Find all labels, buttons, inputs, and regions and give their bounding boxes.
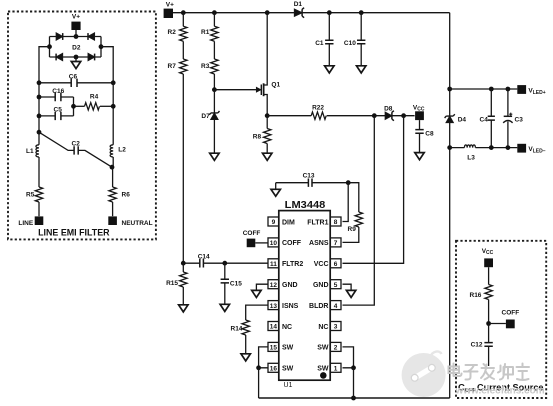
svg-text:7: 7 (334, 240, 338, 247)
svg-text:SW: SW (282, 366, 294, 373)
svg-text:8: 8 (334, 219, 338, 226)
wire VCC pin6 riser (343, 116, 404, 264)
bridge rectifier D2 (47, 33, 103, 60)
node junction (329.3,12.7) (327, 10, 332, 15)
ground arrow below C15 (220, 304, 229, 311)
pin 12 GND (268, 280, 298, 289)
node junction (353.5,367.8) (351, 365, 356, 370)
terminal VCC (main) (413, 104, 425, 120)
svg-text:2: 2 (334, 345, 338, 352)
pin 3 NC (318, 322, 341, 331)
C13 net: ground arrow (275, 183, 277, 190)
node junction (49.5,46.7) (47, 44, 52, 49)
capacitor C4 (480, 89, 495, 148)
node junction (224.8,263.2) (222, 261, 227, 266)
ground arrow below D7 (210, 153, 219, 160)
node junction (101,46.7) (99, 44, 104, 49)
wire FLTR2 row (183, 262, 268, 264)
terminal LINE (18, 216, 43, 226)
resistor R2 (168, 13, 188, 42)
svg-text:GND: GND (282, 282, 298, 289)
svg-text:www.elecfans.com: www.elecfans.com (455, 386, 545, 397)
watermark logo (402, 351, 446, 397)
wire VLED- row (450, 147, 518, 149)
svg-text:V+: V+ (166, 1, 174, 8)
node junction (449.7,147.6) (447, 145, 452, 150)
svg-text:C6: C6 (69, 74, 78, 81)
svg-text:VCC: VCC (314, 261, 329, 268)
capacitor C10 (344, 13, 366, 66)
wire GND pin12 (256, 284, 268, 290)
transistor Q1 (257, 13, 281, 116)
wire BLDR pin4 riser (343, 116, 375, 305)
svg-text:R15: R15 (166, 280, 178, 287)
svg-text:C12: C12 (471, 342, 483, 349)
svg-text:R8: R8 (253, 134, 262, 141)
svg-text:R5: R5 (26, 191, 35, 198)
resistor R16 (470, 267, 493, 323)
wire top rail (173, 12, 450, 14)
wire right rail down (449, 13, 451, 398)
capacitor C14 (198, 253, 210, 267)
ground arrow below R15 (179, 305, 188, 312)
svg-text:R16: R16 (470, 292, 482, 299)
wire node to COFF terminal (489, 323, 506, 325)
svg-text:C1: C1 (315, 40, 324, 47)
node junction (112,167.2) (110, 165, 115, 170)
pin 15 SW (268, 342, 294, 351)
svg-text:R2: R2 (168, 29, 177, 36)
pin 7 ASNS (309, 238, 341, 247)
svg-text:FLTR2: FLTR2 (282, 261, 303, 268)
resistor R4 (71, 94, 116, 110)
pin 4 BLDR (309, 301, 341, 310)
wire left rail down (38, 83, 40, 132)
svg-text:R1: R1 (201, 29, 210, 36)
node junction (73.5,106.3) (71, 104, 76, 109)
svg-text:DIM: DIM (282, 219, 295, 226)
wire SW pins 15/16 join (259, 347, 268, 368)
wire V+ to bridge top (75, 30, 77, 37)
resistor R14 (231, 320, 250, 354)
resistor R22 (311, 105, 326, 120)
pin 9 DIM (268, 217, 295, 226)
svg-text:LINE EMI FILTER: LINE EMI FILTER (38, 228, 110, 239)
watermark chinese text (449, 364, 530, 381)
resistor R9 (343, 183, 363, 243)
svg-text:C8: C8 (425, 131, 434, 138)
svg-text:D4: D4 (458, 117, 467, 124)
svg-text:R4: R4 (90, 94, 99, 101)
node junction (214.4,89.7) (212, 87, 217, 92)
wire COFF square to pin10 (255, 242, 268, 244)
terminal VLED- (517, 144, 545, 155)
pin 2 SW (317, 342, 341, 351)
node junction (488.6,323.5) (486, 321, 491, 326)
svg-text:ASNS: ASNS (309, 240, 329, 247)
svg-text:NC: NC (318, 324, 328, 331)
terminal V+ (main) (164, 1, 175, 18)
pin 8 FLTR1 (307, 217, 341, 226)
capacitor C8 (415, 120, 434, 153)
svg-text:U1: U1 (284, 382, 293, 389)
terminal VCC (coff box) (482, 248, 494, 267)
wire R1-R3 (213, 41, 215, 59)
node junction (403.6,115.7) (401, 113, 406, 118)
pin 11 FLTR2 (268, 259, 303, 268)
svg-text:D8: D8 (384, 105, 393, 112)
ground arrow pin5 (346, 290, 355, 297)
ground arrow pin12 (252, 290, 261, 297)
svg-text:13: 13 (270, 303, 278, 310)
capacitor C15 (221, 263, 243, 304)
wire SW right riser to bottom bus (353, 368, 355, 398)
svg-text:C10: C10 (344, 40, 356, 47)
node junction (214.4,12.7) (212, 10, 217, 15)
svg-text:3: 3 (334, 324, 338, 331)
wire SW left riser to bottom bus (258, 368, 260, 398)
svg-text:L2: L2 (118, 147, 126, 154)
ground arrow below R14 (241, 354, 250, 361)
svg-text:Q1: Q1 (271, 81, 280, 88)
LINE EMI FILTER dashed box (8, 12, 156, 240)
wire bottom bus (259, 397, 450, 399)
capacitor C5 (37, 107, 74, 121)
wire R3 to gate node (213, 74, 215, 90)
svg-text:9: 9 (272, 219, 276, 226)
svg-text:COFF: COFF (502, 310, 520, 317)
svg-text:12: 12 (270, 282, 278, 289)
inductor L2 (110, 145, 126, 187)
svg-text:1: 1 (334, 366, 338, 373)
inductor L1 (26, 132, 39, 187)
resistor R6 (109, 187, 130, 216)
wire R2-R7 (182, 41, 184, 59)
svg-text:C16: C16 (52, 88, 64, 95)
capacitor C12 (471, 324, 493, 367)
resistor R5 (26, 187, 43, 216)
pin 5 GND (313, 280, 341, 289)
op-amp U1: IC LM3448 body (279, 199, 330, 389)
wire R7 down to FLTR2 node (182, 74, 184, 263)
ground arrow below C1 (325, 66, 334, 73)
svg-text:R3: R3 (201, 63, 210, 70)
wire VLED+ row (450, 88, 518, 90)
svg-text:COFF: COFF (282, 240, 302, 247)
capacitor C6 (37, 74, 116, 87)
node junction (353.5,398) (351, 396, 356, 401)
node junction (258.6,367.8) (256, 365, 261, 370)
resistor R7 (168, 59, 188, 74)
node junction (374.3,115.7) (372, 113, 377, 118)
node junction (348.2,182.7) (346, 180, 351, 185)
node junction (183.3,12.7) (181, 10, 186, 15)
svg-text:C13: C13 (303, 173, 315, 180)
node junction (39,115.9) (37, 114, 42, 119)
svg-text:L3: L3 (467, 155, 475, 162)
svg-text:R22: R22 (312, 105, 324, 112)
resistor R15 (166, 263, 187, 305)
pin 13 ISNS (268, 301, 299, 310)
pin 16 SW (268, 363, 294, 372)
svg-text:L1: L1 (26, 148, 34, 155)
svg-text:D2: D2 (72, 45, 81, 52)
ground arrow below bridge (75, 57, 77, 62)
wire C13 node to FLTR1 pin8 (343, 183, 349, 222)
svg-text:COFF: COFF (243, 230, 261, 237)
svg-text:R9: R9 (348, 226, 357, 233)
svg-text:16: 16 (270, 366, 278, 373)
zener diode D7 (201, 90, 219, 154)
node junction (267.2,115.7) (265, 113, 270, 118)
svg-text:V+: V+ (72, 13, 80, 20)
svg-text:D1: D1 (294, 1, 303, 8)
capacitor C2 (on diagonal) (39, 132, 114, 169)
wire right rail down (112, 83, 114, 145)
svg-text:C15: C15 (230, 280, 242, 287)
wire bridge right vertex to right rail (101, 47, 113, 83)
wire SW/R22 row (267, 115, 385, 117)
svg-text:SW: SW (317, 345, 329, 352)
diode D1 (294, 1, 304, 18)
terminal NEUTRAL (108, 216, 152, 227)
svg-text:C2: C2 (72, 141, 81, 148)
resistor R1 (201, 13, 218, 42)
svg-text:R6: R6 (122, 191, 131, 198)
capacitor C1 (315, 13, 333, 66)
svg-text:C5: C5 (54, 107, 63, 114)
COFF current source dashed box (456, 241, 546, 398)
svg-text:FLTR1: FLTR1 (307, 219, 328, 226)
svg-text:4: 4 (334, 303, 338, 310)
node junction (183.3,263.2) (181, 261, 186, 266)
svg-text:15: 15 (270, 345, 278, 352)
svg-text:C4: C4 (480, 117, 489, 124)
svg-text:LM3448: LM3448 (285, 199, 326, 211)
node junction (76,57) (74, 55, 79, 60)
node junction (507.9,147.6) (506, 145, 511, 150)
inductor L3 (464, 145, 475, 162)
wire bridge left vertex to left rail (39, 47, 50, 83)
terminal COFF (coff box) (502, 310, 520, 329)
node junction (76,36.5) (74, 34, 79, 39)
node junction to C2 (37, 130, 42, 135)
svg-text:C14: C14 (198, 253, 210, 260)
capacitor C16 (37, 88, 74, 101)
terminal COFF (left) (243, 230, 261, 247)
resistor R3 (201, 59, 218, 74)
svg-text:ISNS: ISNS (282, 303, 299, 310)
pin 10 COFF (268, 238, 302, 247)
node junction (113.2,82.8) (111, 80, 116, 85)
resistor R8 (253, 116, 271, 154)
pin 14 NC (268, 322, 292, 331)
ground arrow below C8 (415, 153, 424, 160)
node junction (491.3,89) (489, 87, 494, 92)
svg-text:GND: GND (313, 282, 329, 289)
pin 6 VCC (314, 259, 341, 268)
wire GND pin5 (343, 284, 352, 290)
svg-text:R14: R14 (231, 326, 243, 333)
svg-text:C3: C3 (515, 117, 524, 124)
diode D8 (384, 105, 415, 120)
wire SW pins 2/1 join (343, 347, 354, 368)
svg-text:SW: SW (317, 366, 329, 373)
capacitor C3 (polarized) (503, 89, 523, 148)
wire gate row (214, 89, 256, 91)
capacitor C13 (276, 173, 349, 187)
terminal VLED+ (517, 85, 545, 96)
svg-text:11: 11 (270, 261, 277, 268)
ground arrow below C10 (357, 66, 366, 73)
svg-text:NEUTRAL: NEUTRAL (122, 220, 153, 227)
svg-text:14: 14 (270, 324, 278, 331)
svg-text:LINE: LINE (18, 220, 33, 227)
node junction (491.3,147.6) (489, 145, 494, 150)
node junction (39,97) (37, 95, 42, 100)
node junction (507.9,89) (506, 87, 511, 92)
wire C16/C5 right join (73, 97, 75, 116)
node V+ (EMI output terminal) (71, 13, 80, 30)
node junction (267.2,12.7) (265, 10, 270, 15)
svg-text:5: 5 (334, 282, 338, 289)
wire ISNS pin13 to R14 (246, 305, 268, 320)
svg-text:NC: NC (282, 324, 292, 331)
ground arrow below R8 (263, 153, 272, 160)
svg-text:BLDR: BLDR (309, 303, 328, 310)
zener diode D4 (445, 114, 467, 124)
node junction (361.2,12.7) (359, 10, 364, 15)
svg-text:SW: SW (282, 345, 294, 352)
node junction (39,82.8) (37, 80, 42, 85)
svg-text:6: 6 (334, 261, 338, 268)
svg-text:R7: R7 (168, 63, 177, 70)
pin 1 SW (317, 363, 341, 372)
node junction (113.2,106.3) (111, 104, 116, 109)
node junction (449.7,89) (447, 87, 452, 92)
svg-text:D7: D7 (201, 113, 210, 120)
svg-text:10: 10 (270, 240, 278, 247)
